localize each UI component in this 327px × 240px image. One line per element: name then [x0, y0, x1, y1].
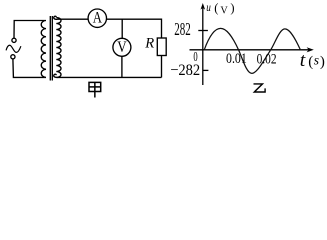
wire resistor bottom to bottom rail	[161, 56, 163, 78]
svg-text:0.01: 0.01	[226, 51, 247, 67]
graph: sine curve u(t)	[204, 28, 300, 73]
AC source G1 bottom terminal	[11, 55, 15, 59]
svg-text:0: 0	[193, 49, 197, 64]
AC source G1 top terminal	[12, 38, 16, 42]
resistor R body	[157, 38, 166, 56]
transformer T1 core	[50, 16, 52, 81]
graph: -282 tick	[203, 69, 209, 71]
svg-text:−282: −282	[170, 62, 200, 79]
svg-text:u: u	[206, 2, 211, 14]
svg-text:A: A	[93, 9, 103, 26]
svg-text:): )	[320, 54, 325, 70]
svg-text:(: (	[214, 1, 218, 15]
svg-text:282: 282	[174, 19, 191, 39]
secondary top lead curl	[54, 16, 57, 19]
secondary bottom lead curl	[54, 74, 57, 77]
label 甲 (figure a)	[89, 82, 101, 97]
ammeter U1 circle	[88, 9, 106, 27]
svg-text:s: s	[314, 53, 319, 68]
svg-text:t: t	[300, 50, 306, 71]
wire voltmeter bottom to bottom rail	[121, 56, 123, 77]
wire source top to transformer primary top	[14, 21, 45, 39]
svg-text:R: R	[144, 36, 154, 52]
wire ammeter to right corner and down to resistor	[107, 19, 162, 38]
svg-text:V: V	[220, 5, 228, 16]
graph: x-axis	[190, 49, 312, 51]
wire junction to voltmeter	[121, 19, 123, 38]
svg-text:): )	[230, 1, 234, 15]
voltmeter U2 circle	[113, 38, 131, 56]
wire source bottom to transformer primary bottom	[13, 59, 45, 77]
svg-text:0.02: 0.02	[257, 51, 277, 67]
transformer T1 secondary winding	[56, 18, 61, 78]
graph: +282 tick	[198, 30, 208, 32]
AC source G1 sine symbol	[6, 45, 21, 52]
graph: y-axis arrowhead	[201, 3, 206, 10]
svg-text:V: V	[117, 39, 127, 56]
transformer T1 primary winding	[41, 21, 46, 78]
svg-text:(: (	[308, 54, 313, 70]
wire secondary top to ammeter	[57, 18, 88, 20]
graph: x-axis arrowhead	[307, 47, 314, 52]
label 乙 (figure b)	[254, 84, 266, 92]
wire bottom rail	[57, 76, 162, 78]
graph: y-axis	[202, 5, 204, 85]
